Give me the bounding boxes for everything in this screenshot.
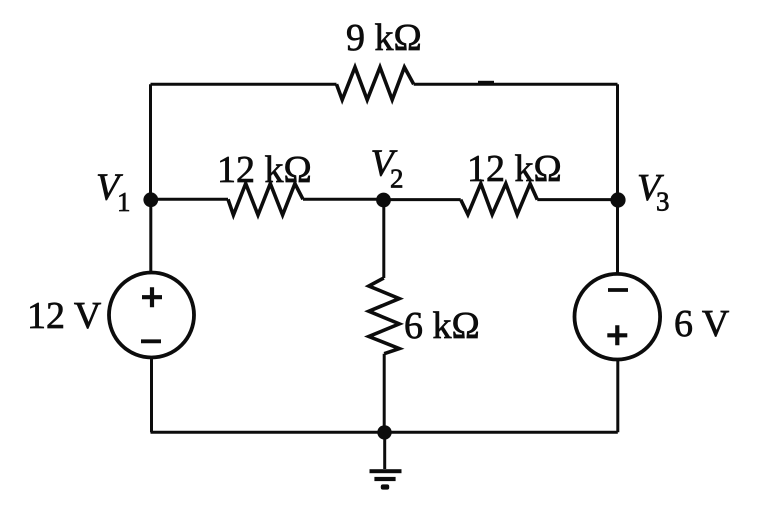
- source VS1 12V circle: [109, 273, 194, 358]
- svg-text:6 kΩ: 6 kΩ: [404, 305, 480, 347]
- node V1 dot: [143, 192, 158, 207]
- node V3 dot: [610, 192, 625, 207]
- svg-text:1: 1: [117, 187, 131, 217]
- svg-text:12 V: 12 V: [27, 295, 102, 337]
- wire middle rail V2 to R3: [382, 200, 385, 278]
- wire left rail source to bottom: [150, 358, 153, 433]
- svg-text:12 kΩ: 12 kΩ: [467, 148, 562, 190]
- minus sign of VS1: [141, 339, 161, 343]
- node ground junction dot: [377, 425, 391, 439]
- wire left rail upper: [149, 84, 152, 199]
- ground bar 3: [381, 484, 389, 489]
- wire top right segment: [414, 83, 618, 86]
- wire scan-dark patch on top wire: [478, 81, 494, 85]
- wire middle R2 to V3: [537, 198, 617, 201]
- ground bar 2: [374, 477, 395, 481]
- plus sign of VS2: [607, 325, 627, 345]
- wire middle V1 to R1: [151, 198, 229, 201]
- node V2 dot: [376, 193, 391, 208]
- wire middle rail R3 to bottom node: [383, 354, 386, 433]
- ground bar 1: [370, 469, 402, 473]
- svg-text:12 kΩ: 12 kΩ: [217, 149, 312, 191]
- svg-text:9 kΩ: 9 kΩ: [346, 17, 422, 59]
- wire right rail V3 to source: [616, 200, 619, 274]
- resistor R-top 9k zigzag: [337, 67, 414, 100]
- resistor R3 6k vertical zigzag: [369, 278, 400, 354]
- plus sign of VS1: [142, 287, 162, 307]
- wire right rail upper: [616, 84, 619, 199]
- wire top left-rail to top-right corner: [151, 83, 337, 86]
- svg-text:2: 2: [390, 164, 404, 194]
- wire bottom rail: [151, 431, 618, 434]
- wire left rail V1 to source: [149, 199, 152, 273]
- wire right rail source to bottom: [616, 360, 619, 433]
- resistor R2 12k zigzag: [461, 184, 538, 215]
- svg-text:3: 3: [656, 187, 670, 217]
- wire middle R1 to V2: [303, 198, 384, 201]
- resistor R1 12k zigzag: [228, 184, 303, 215]
- minus sign of VS2: [608, 288, 628, 292]
- wire middle V2 to R2: [384, 198, 461, 201]
- ground stub wire: [383, 432, 386, 469]
- svg-text:6 V: 6 V: [674, 303, 730, 345]
- source VS2 6V circle: [575, 274, 661, 360]
